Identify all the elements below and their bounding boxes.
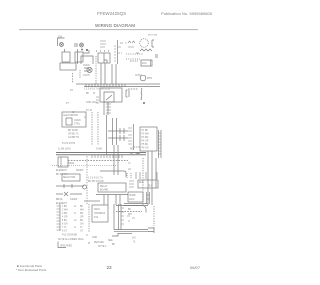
wire cols right xyxy=(148,151,156,205)
svg-text:1 2 3 4 5 6 7 8 9 10 11 12: 1 2 3 4 5 6 7 8 9 10 11 12 xyxy=(84,89,111,91)
control board outer box xyxy=(100,88,122,102)
wire dotted row xyxy=(52,165,116,167)
top wire row with corner xyxy=(116,206,146,213)
wire dashed col xyxy=(86,156,88,204)
svg-text:FFEW2425QS: FFEW2425QS xyxy=(97,11,126,16)
svg-text:P4 OR: P4 OR xyxy=(142,141,149,143)
svg-text:LO: LO xyxy=(120,43,123,45)
svg-text:WIRING DIAGRAM: WIRING DIAGRAM xyxy=(95,23,135,28)
svg-text:P1 P2 P3 P4: P1 P2 P3 P4 xyxy=(62,143,76,145)
svg-text:BK RD WH: BK RD WH xyxy=(56,174,68,176)
inner contact xyxy=(104,60,107,63)
svg-text:N: N xyxy=(74,213,76,215)
svg-text:YL: YL xyxy=(80,227,84,229)
svg-text:P3 RD: P3 RD xyxy=(142,137,149,139)
wire dotted row 2 xyxy=(126,58,140,60)
svg-text:ELEMENT: ELEMENT xyxy=(56,170,67,172)
plug symbol xyxy=(148,227,154,233)
wire drops to bus xyxy=(101,63,116,84)
svg-text:P1 BK: P1 BK xyxy=(142,130,149,132)
svg-text:MAIN: MAIN xyxy=(94,208,100,211)
svg-text:BK RD WH OR: BK RD WH OR xyxy=(88,181,104,183)
dashed col right xyxy=(153,206,155,226)
svg-text:RD: RD xyxy=(130,149,134,151)
door switch SW1 box xyxy=(62,52,70,62)
svg-text:G: G xyxy=(74,227,76,229)
svg-text:8 GY: 8 GY xyxy=(62,231,68,233)
svg-text:OR: OR xyxy=(80,217,84,219)
dash marks xyxy=(118,47,134,53)
svg-text:BOARD: BOARD xyxy=(100,189,109,192)
svg-text:MTR SW: MTR SW xyxy=(148,35,158,37)
lock motor M1 dashed circle xyxy=(140,39,149,48)
terminal marks TR xyxy=(155,55,158,57)
terminal block box xyxy=(58,157,68,167)
svg-text:NOTE ALL WIRES 16GA: NOTE ALL WIRES 16GA xyxy=(58,238,84,241)
buzzer symbol xyxy=(80,43,84,47)
bracket right xyxy=(126,90,129,97)
svg-text:YL: YL xyxy=(133,242,137,244)
svg-text:L2: L2 xyxy=(74,220,77,222)
svg-text:P4: P4 xyxy=(70,90,74,92)
wire row with junctions xyxy=(56,185,84,187)
wire dashed col xyxy=(142,158,144,205)
svg-text:2600W: 2600W xyxy=(76,170,84,172)
latch assembly box xyxy=(60,63,76,70)
tick ladder xyxy=(106,104,111,113)
wire drops xyxy=(104,102,108,115)
wire stub right xyxy=(150,60,152,66)
svg-text:O.: O. xyxy=(86,235,89,237)
svg-text:L1: L1 xyxy=(74,206,77,208)
DLB left pins xyxy=(129,181,134,187)
wire bus main xyxy=(76,83,160,85)
wire dashed col 2 xyxy=(97,112,99,145)
svg-text:RD: RD xyxy=(80,213,84,215)
receptacle circle xyxy=(83,185,87,189)
svg-text:3400W: 3400W xyxy=(70,199,78,201)
svg-text:GND 14GA: GND 14GA xyxy=(86,101,98,104)
wire dashed col xyxy=(95,56,97,84)
svg-text:GN: GN xyxy=(80,224,84,226)
open frame component xyxy=(81,56,93,64)
convection motor symbol xyxy=(140,75,146,81)
svg-text:LIGHT: LIGHT xyxy=(83,75,90,77)
schematic small text xyxy=(56,35,158,249)
wire dotted to motor xyxy=(126,53,143,55)
svg-text:1 BK: 1 BK xyxy=(62,206,67,208)
wire row xyxy=(96,194,128,196)
svg-text:BU: BU xyxy=(80,220,84,222)
svg-text:10A: 10A xyxy=(58,36,63,39)
lambda text marks xyxy=(125,41,135,43)
wire marks xyxy=(136,52,139,54)
wire dashed col 1 xyxy=(91,112,93,145)
svg-text:L1 BK 10GA: L1 BK 10GA xyxy=(58,148,71,151)
svg-text:P5 BU: P5 BU xyxy=(142,144,149,146)
svg-text:GN BR TN: GN BR TN xyxy=(68,137,79,139)
door switch SW2 box xyxy=(75,52,83,62)
svg-text:W: W xyxy=(93,93,96,95)
svg-text:6 GN: 6 GN xyxy=(62,224,68,226)
svg-text:OR BU YL: OR BU YL xyxy=(68,134,79,136)
element coil squiggle xyxy=(140,88,143,100)
wire S-curve xyxy=(132,152,140,153)
wire vertical left xyxy=(77,52,79,64)
bus terminal ticks xyxy=(86,84,125,87)
wire solid cols xyxy=(107,115,117,155)
L corner wire xyxy=(113,204,115,230)
svg-text:BU: BU xyxy=(130,153,134,155)
dot row xyxy=(96,50,109,52)
label stack texts above bake box xyxy=(100,41,106,47)
svg-text:WH: WH xyxy=(80,210,84,212)
svg-text:P2 WH: P2 WH xyxy=(142,134,150,136)
motor bracket xyxy=(152,40,154,47)
svg-text:BROIL: BROIL xyxy=(56,199,64,201)
vertical label ticks xyxy=(114,46,116,61)
svg-text:CONV: CONV xyxy=(135,75,142,77)
connector bus vertical xyxy=(133,124,135,150)
svg-text:GY: GY xyxy=(80,231,84,233)
resistor element squiggle xyxy=(140,49,152,51)
svg-text:BK: BK xyxy=(128,209,132,211)
inner switch box xyxy=(104,92,114,102)
svg-text:XFMR: XFMR xyxy=(129,195,136,197)
EOC box xyxy=(62,112,86,127)
connector block box xyxy=(140,127,157,151)
svg-text:BK: BK xyxy=(80,206,84,208)
svg-text:J1: J1 xyxy=(84,117,87,119)
wire dashed row xyxy=(68,160,128,162)
svg-text:W: W xyxy=(88,243,91,245)
wire row bottom xyxy=(118,233,132,235)
svg-text:ELEMENT: ELEMENT xyxy=(56,203,67,205)
DLB relay box xyxy=(138,180,158,188)
svg-text:GND: GND xyxy=(92,237,97,239)
wire bus lower xyxy=(84,86,160,88)
edge connector rails xyxy=(159,130,162,158)
svg-text:P12 CONN BK: P12 CONN BK xyxy=(62,235,78,237)
svg-text:N WH: N WH xyxy=(96,149,102,151)
svg-text:ELECTRONIC: ELECTRONIC xyxy=(64,115,79,117)
svg-text:3 RD: 3 RD xyxy=(62,213,68,215)
wire row left xyxy=(84,200,100,202)
svg-text:CTRL: CTRL xyxy=(74,124,81,126)
header rule xyxy=(19,28,198,31)
power bus L1 xyxy=(56,152,146,154)
harness box xyxy=(92,205,108,222)
junction rail 2 xyxy=(108,137,128,139)
terminal marks xyxy=(74,44,78,46)
svg-text:23: 23 xyxy=(107,265,113,270)
svg-text:BK: BK xyxy=(112,244,116,246)
svg-text:SPECIFIED: SPECIFIED xyxy=(60,246,72,248)
wire scatter marks mid xyxy=(127,216,135,221)
ground bus double xyxy=(114,230,148,232)
svg-text:OVEN: OVEN xyxy=(74,120,81,122)
wire stubs xyxy=(56,193,82,195)
svg-text:OVEN: OVEN xyxy=(83,65,90,67)
element symbol X xyxy=(64,192,68,196)
svg-text:SEE: SEE xyxy=(108,240,113,242)
wire dashed to relay xyxy=(130,60,138,62)
selector switch box xyxy=(62,174,80,181)
wire dashed drop xyxy=(72,73,74,83)
svg-text:WH: WH xyxy=(128,214,132,216)
junction rail 1 xyxy=(108,130,128,132)
wire cols mid xyxy=(114,145,118,175)
svg-text:GY: GY xyxy=(128,169,132,171)
wire corner xyxy=(83,50,89,53)
svg-text:DLB: DLB xyxy=(139,182,144,184)
node dot xyxy=(86,49,88,51)
svg-text:5 BU: 5 BU xyxy=(62,220,67,222)
wire dashes left xyxy=(96,97,99,103)
svg-text:PER NEC: PER NEC xyxy=(94,242,105,244)
svg-text:1 2 3 4 5 6 7 8: 1 2 3 4 5 6 7 8 xyxy=(88,178,103,180)
svg-text:P7: P7 xyxy=(66,103,70,105)
bus rails vertical xyxy=(119,204,122,230)
svg-text:RLY: RLY xyxy=(148,186,153,188)
svg-text:FAN: FAN xyxy=(142,62,147,65)
relay board box xyxy=(98,183,126,192)
wire dashes below connector xyxy=(134,146,140,148)
svg-text:BAKE: BAKE xyxy=(68,162,75,165)
svg-text:BK: BK xyxy=(86,93,90,95)
svg-text:2 WH: 2 WH xyxy=(62,210,68,212)
wire vertical L1 feed xyxy=(117,40,119,64)
svg-text:P7 J2: P7 J2 xyxy=(86,110,93,112)
wire drops xyxy=(104,195,120,205)
wire dashes right of latch xyxy=(79,70,81,78)
svg-text:HARNESS: HARNESS xyxy=(94,212,106,215)
svg-text:* Non-Illustrated Parts: * Non-Illustrated Parts xyxy=(16,268,47,272)
note L-bracket xyxy=(58,242,66,248)
bake switch box xyxy=(98,53,110,63)
transformer underline double xyxy=(124,204,148,206)
connector comb J1 xyxy=(59,204,61,231)
interlock lamp symbol xyxy=(60,43,64,47)
svg-text:SELECTOR: SELECTOR xyxy=(63,177,76,179)
power bus N xyxy=(56,154,146,156)
connector pin rows xyxy=(128,128,132,144)
svg-text:NOTE 2: NOTE 2 xyxy=(98,246,107,248)
EOC inner box xyxy=(66,118,72,125)
svg-text:RELAY: RELAY xyxy=(100,185,108,188)
junction crosses xyxy=(120,128,124,141)
left dash cols xyxy=(127,173,131,178)
transformer T1 box xyxy=(128,192,143,202)
svg-text:GN: GN xyxy=(132,238,136,240)
svg-text:P6 GN: P6 GN xyxy=(142,148,149,150)
corner box start xyxy=(141,60,152,66)
wire bracket top-left xyxy=(58,38,65,46)
node dot xyxy=(143,102,144,103)
wire row with corner xyxy=(100,171,126,177)
transformer right bracket xyxy=(147,192,150,204)
svg-text:120V: 120V xyxy=(129,199,135,201)
svg-text:BK W RD: BK W RD xyxy=(68,130,78,132)
comb verticals above DLB xyxy=(136,172,157,179)
svg-text:Publication No. 5995589805: Publication No. 5995589805 xyxy=(161,11,213,16)
dashed wire row xyxy=(116,211,142,213)
bus comb ticks xyxy=(92,155,122,158)
svg-text:06/07: 06/07 xyxy=(190,265,201,270)
svg-text:4 OR: 4 OR xyxy=(62,217,68,219)
oven light symbol xyxy=(87,67,92,72)
corner bracket bottom xyxy=(112,233,118,236)
wire dashed branch xyxy=(128,88,138,90)
svg-text:YL: YL xyxy=(128,163,132,165)
svg-text:P12: P12 xyxy=(94,217,99,219)
svg-text:MTR: MTR xyxy=(147,78,152,80)
svg-text:7 YL: 7 YL xyxy=(62,227,67,229)
